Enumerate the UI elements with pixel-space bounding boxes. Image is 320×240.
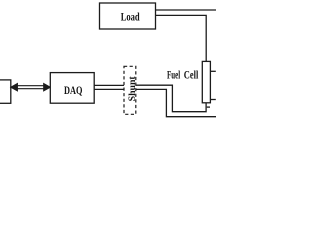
fuel cell upper right tap <box>210 70 215 72</box>
negative terminal tick <box>207 106 210 108</box>
fuel cell stack rectangle <box>202 61 210 102</box>
Load box <box>100 3 156 29</box>
svg-text:Shunt: Shunt <box>127 76 138 102</box>
wire load upper to right edge <box>156 9 217 11</box>
shunt dashed box <box>124 66 136 114</box>
fuel cell lower right tap <box>210 99 215 101</box>
wire shunt to fuel cell bottom <box>136 85 206 112</box>
wire DAQ to shunt upper <box>94 84 124 86</box>
svg-text:Load: Load <box>121 12 140 24</box>
wire shunt lower to right edge <box>136 89 216 116</box>
computer box (cut off at left image edge) <box>0 80 11 103</box>
wire DAQ to shunt lower <box>94 88 124 90</box>
svg-text:Fuel: Fuel <box>167 69 180 81</box>
wire load lower to fuel cell top <box>156 15 207 61</box>
svg-text:DAQ: DAQ <box>64 85 82 97</box>
DAQ box <box>50 73 94 104</box>
svg-text:Cell: Cell <box>184 69 199 81</box>
bidirectional arrow between computer and DAQ <box>11 84 50 91</box>
